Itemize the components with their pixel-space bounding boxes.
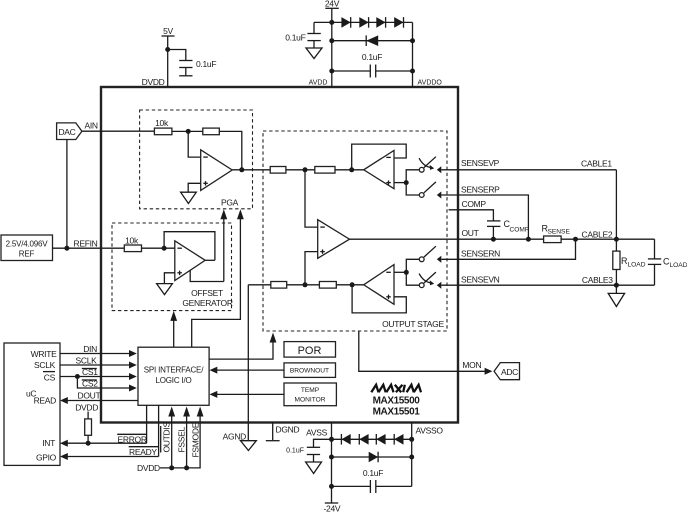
diode D1 — [341, 17, 350, 28]
svg-text:OFFSET: OFFSET — [191, 288, 223, 298]
supply 24V — [325, 0, 340, 22]
resistor output stage bottom C — [271, 282, 287, 289]
resistor output stage top B — [315, 167, 335, 174]
svg-text:REFIN: REFIN — [74, 238, 98, 248]
wire PGA feedback to output — [219, 131, 242, 169]
svg-text:POR: POR — [298, 345, 322, 357]
capacitor 0.1uF at AVSS — [286, 439, 331, 462]
wire ERROR / INT — [60, 405, 147, 446]
svg-text:SENSERP: SENSERP — [461, 185, 500, 195]
ground at load — [608, 285, 624, 306]
supply 5V — [162, 26, 175, 87]
POR box — [284, 342, 336, 358]
capacitor 0.1uF AVDD-AVDDO — [329, 52, 415, 78]
wire PGA input node — [172, 129, 203, 134]
ground at offset op-amp — [157, 284, 173, 295]
wire DOUT — [60, 391, 138, 404]
PGA dashed box — [140, 110, 253, 209]
svg-text:5V: 5V — [163, 26, 173, 36]
svg-text:OUT: OUT — [462, 228, 479, 238]
diode D10 forward — [332, 452, 412, 463]
capacitor CCOMP — [487, 219, 530, 242]
op-amp offset generator — [175, 241, 205, 281]
svg-text:SCLK: SCLK — [76, 355, 98, 365]
switch SENSEVN — [419, 272, 441, 289]
svg-text:INT: INT — [42, 438, 55, 448]
wire FSSEL — [176, 407, 190, 468]
wire PGA output — [232, 167, 270, 172]
wire offset output — [205, 259, 215, 261]
DAC tag — [57, 123, 82, 140]
diode D4 — [394, 17, 403, 28]
switch SENSERN — [419, 246, 441, 263]
svg-text:0.1uF: 0.1uF — [363, 468, 383, 478]
wire BROWNOUT to SPI — [210, 367, 285, 374]
svg-text:DVDD: DVDD — [137, 463, 160, 473]
wire AIN — [82, 130, 154, 132]
svg-text:ERROR: ERROR — [118, 435, 147, 445]
wire AVSSO vertical — [409, 423, 414, 487]
chip outline MAX15500/MAX15501 — [101, 87, 458, 423]
wire AVSS vertical — [329, 423, 334, 504]
wire PGA inverting input — [188, 131, 201, 157]
svg-text:MONITOR: MONITOR — [294, 397, 325, 404]
wire bottom op-amp feedback — [352, 285, 406, 313]
node REFIN junction — [64, 246, 69, 251]
wire FSMODE — [160, 407, 204, 468]
control arrow into offset generator — [170, 311, 177, 347]
supply -24V — [324, 503, 341, 512]
wire TEMP MONITOR to SPI — [210, 391, 285, 398]
svg-text:OUTDIS: OUTDIS — [161, 422, 171, 453]
wire diode row top — [332, 21, 413, 23]
node AVDD rail junction — [329, 20, 334, 25]
wire PGA non-inverting input — [188, 183, 201, 192]
resistor RSENSE — [542, 224, 571, 243]
svg-text:AVDD: AVDD — [309, 80, 328, 87]
svg-text:AVSSO: AVSSO — [416, 426, 444, 436]
resistor 10k offset — [124, 236, 141, 252]
svg-text:AVDDO: AVDDO — [418, 80, 443, 87]
svg-text:AGND: AGND — [223, 432, 247, 442]
svg-text:10k: 10k — [155, 118, 169, 128]
microcontroller box — [4, 343, 60, 465]
svg-text:MON: MON — [462, 360, 481, 370]
svg-text:SENSEVN: SENSEVN — [461, 275, 500, 285]
wire SENSEVP to CABLE1 — [441, 170, 616, 239]
diode D3 — [376, 17, 385, 28]
wire bottom branch to amp — [336, 282, 363, 287]
svg-text:SPI INTERFACE/: SPI INTERFACE/ — [144, 366, 204, 375]
svg-text:AIN: AIN — [85, 121, 98, 131]
resistor output stage bottom D — [319, 282, 336, 289]
svg-text:LOGIC I/O: LOGIC I/O — [156, 376, 192, 385]
wire diode row bottom — [332, 438, 412, 440]
svg-text:READ: READ — [34, 395, 57, 405]
control arrow gain select 2 into PGA — [192, 209, 244, 347]
wire OUT to load — [561, 237, 654, 242]
svg-text:0.1uF: 0.1uF — [286, 448, 304, 455]
wire middle op-amp inverting feed — [305, 170, 318, 227]
wire offset inverting input — [142, 246, 175, 251]
ground AGND — [241, 441, 257, 451]
OUTPUT STAGE dashed box — [263, 131, 447, 331]
svg-text:10k: 10k — [125, 236, 139, 246]
op-amp PGA — [201, 150, 233, 191]
svg-text:DVDD: DVDD — [142, 77, 165, 87]
wire AVDD vertical — [331, 22, 333, 87]
svg-text:DVDD: DVDD — [75, 402, 98, 412]
capacitor 0.1uF at 24V — [285, 22, 332, 48]
wire SENSEVN to CABLE3 — [441, 283, 654, 288]
svg-text:DOUT: DOUT — [78, 391, 101, 401]
wire middle op-amp non-inverting feed — [305, 252, 318, 285]
wire bottom branch — [287, 282, 320, 287]
wire bottom op-amp minus node — [394, 259, 419, 285]
wire offset non-inverting input — [164, 273, 174, 284]
svg-text:TEMP: TEMP — [301, 387, 320, 394]
wire AVDDO vertical — [412, 22, 414, 87]
diode D5 reverse — [329, 35, 415, 46]
SPI interface box — [138, 347, 209, 405]
svg-text:24V: 24V — [325, 0, 340, 9]
svg-text:DGND: DGND — [276, 424, 300, 434]
svg-text:CABLE1: CABLE1 — [581, 159, 612, 169]
ADC tag — [494, 363, 519, 380]
diode D6 — [341, 434, 350, 445]
BROWNOUT box — [284, 363, 336, 378]
resistor DVDD pull-up — [75, 402, 98, 443]
OFFSET GENERATOR dashed box — [112, 223, 232, 311]
svg-text:ADC: ADC — [501, 367, 518, 377]
svg-text:FSMODE: FSMODE — [190, 422, 200, 457]
wire REFIN — [53, 247, 125, 249]
svg-text:MAX15501: MAX15501 — [373, 406, 421, 417]
op-amp output stage top — [364, 150, 394, 188]
svg-text:CABLE2: CABLE2 — [582, 230, 613, 240]
svg-text:-24V: -24V — [324, 504, 341, 512]
wire control to output stage — [209, 333, 276, 360]
svg-text:0.1uF: 0.1uF — [196, 59, 216, 69]
resistor RLOAD — [613, 239, 646, 285]
svg-text:SENSEVP: SENSEVP — [461, 158, 500, 168]
wire SENSERN — [441, 239, 575, 259]
ground at PGA — [181, 192, 197, 203]
svg-text:LOAD: LOAD — [628, 262, 646, 269]
wire CS1 — [60, 367, 137, 380]
resistor output stage top A — [270, 167, 286, 174]
resistor 10k PGA — [154, 118, 172, 135]
svg-text:LOAD: LOAD — [670, 262, 687, 269]
wire COMP — [449, 210, 494, 221]
svg-text:GENERATOR: GENERATOR — [182, 298, 233, 308]
Maxim logo — [371, 385, 421, 393]
wire offset output loop — [190, 270, 224, 281]
svg-text:SCLK: SCLK — [34, 360, 56, 370]
voltage reference box 2.5V/4.096V REF — [1, 235, 53, 261]
pin DVDD bottom — [137, 463, 189, 473]
diode D7 — [359, 434, 368, 445]
svg-text:SENSE: SENSE — [548, 229, 571, 236]
svg-text:DAC: DAC — [58, 127, 75, 137]
svg-text:PGA: PGA — [221, 198, 239, 208]
wire OUT row — [350, 238, 544, 240]
svg-text:COMP: COMP — [510, 227, 530, 234]
svg-text:DIN: DIN — [83, 344, 97, 354]
svg-text:2.5V/4.096V: 2.5V/4.096V — [6, 239, 49, 248]
label OFFSET GENERATOR — [182, 288, 233, 308]
resistor PGA feedback — [203, 128, 220, 135]
wire AGND — [247, 285, 249, 441]
capacitor 0.1uF AVSS-AVSSO — [332, 468, 412, 493]
wire top op-amp plus node — [394, 170, 419, 195]
switch SENSERP — [419, 182, 441, 199]
svg-text:MAX15500: MAX15500 — [373, 395, 421, 406]
svg-text:SENSERN: SENSERN — [461, 249, 500, 259]
wire offset feedback loop — [164, 232, 215, 261]
svg-text:AVSS: AVSS — [306, 428, 327, 438]
wire bottom branch from AGND node — [248, 284, 270, 286]
svg-text:REF: REF — [19, 249, 35, 258]
svg-text:FSSEL: FSSEL — [176, 426, 186, 452]
control arrow gain select 1 into PGA — [220, 209, 227, 281]
op-amp output stage bottom — [364, 265, 394, 305]
diode D9 — [394, 434, 403, 445]
wire READY / GPIO — [60, 405, 159, 460]
svg-text:0.1uF: 0.1uF — [285, 33, 305, 43]
svg-text:GPIO: GPIO — [36, 452, 57, 462]
diode D8 — [376, 434, 385, 445]
pin DGND — [266, 423, 300, 441]
wire SENSERP — [441, 195, 531, 242]
wire top branch — [286, 167, 315, 172]
wire DAC to REFIN — [66, 140, 68, 249]
wire top branch to amp — [335, 167, 364, 172]
svg-text:CABLE3: CABLE3 — [582, 275, 613, 285]
wire SCLK — [60, 355, 137, 368]
svg-text:READY: READY — [129, 447, 157, 457]
wire CS2 — [77, 377, 136, 392]
ground at AVSS cap — [306, 462, 322, 474]
switch SENSEVP — [419, 157, 441, 174]
wire OUTDIS — [161, 407, 175, 468]
TEMP MONITOR box — [284, 383, 336, 406]
svg-text:CS: CS — [44, 372, 56, 382]
wire top op-amp feedback — [352, 144, 407, 170]
svg-text:BROWNOUT: BROWNOUT — [290, 368, 329, 375]
wire DIN — [60, 344, 137, 357]
wire MON — [359, 331, 493, 375]
capacitor 0.1uF at DVDD — [168, 50, 217, 76]
svg-text:OUTPUT STAGE: OUTPUT STAGE — [382, 319, 444, 329]
svg-text:0.1uF: 0.1uF — [362, 52, 382, 62]
op-amp output stage middle — [318, 220, 350, 259]
capacitor CLOAD — [648, 239, 687, 285]
diode D2 — [359, 17, 368, 28]
svg-text:COMP: COMP — [462, 199, 487, 209]
ground at 24V cap — [306, 48, 322, 59]
svg-text:WRITE: WRITE — [31, 349, 58, 359]
